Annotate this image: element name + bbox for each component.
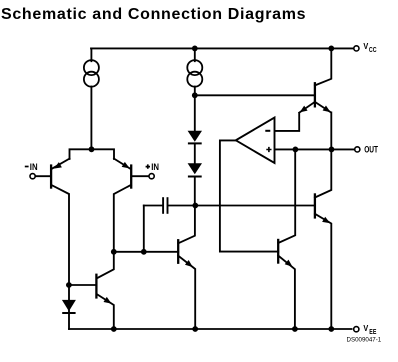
svg-text:V: V bbox=[363, 324, 368, 334]
svg-text:Schematic and Connection Diagr: Schematic and Connection Diagrams bbox=[1, 6, 306, 23]
svg-text:IN: IN bbox=[151, 162, 159, 173]
svg-text:CC: CC bbox=[369, 46, 377, 54]
svg-text:IN: IN bbox=[30, 162, 38, 173]
svg-text:EE: EE bbox=[369, 328, 377, 336]
svg-text:V: V bbox=[363, 41, 368, 51]
svg-text:DS009047-1: DS009047-1 bbox=[347, 337, 382, 344]
svg-text:OUT: OUT bbox=[364, 145, 378, 155]
